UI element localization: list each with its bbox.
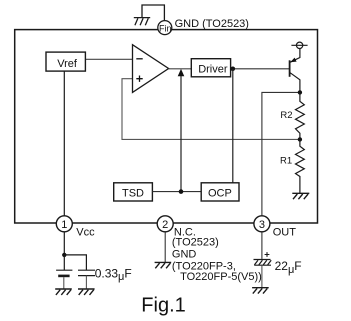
svg-text:Vref: Vref [57,58,78,70]
capacitor C2 (0.33uF) [78,270,95,289]
wire: pin 2 to ground [164,232,166,262]
svg-text:3: 3 [259,219,265,231]
Fin circle pin [158,21,172,35]
ground (below R1) [292,193,309,199]
IC outline box [15,30,318,223]
svg-text:R1: R1 [280,155,292,166]
wire: feedback to op-amp non-inverting input [122,79,300,140]
svg-text:Fig.1: Fig.1 [141,295,185,317]
svg-text:R2: R2 [280,110,292,121]
N.C. label block [172,226,262,283]
svg-text:OCP: OCP [208,187,232,199]
svg-text:(TO2523): (TO2523) [172,236,219,248]
svg-text:Vcc: Vcc [76,226,95,238]
wire: Vref down to pin 1 Vcc [63,71,65,255]
svg-text:Fin: Fin [159,23,172,33]
pin 3 circle [254,216,270,232]
wire: OCP riser [232,69,234,183]
resistor R2 [296,92,305,139]
junction node (pin1 / input caps tee) [62,253,66,257]
svg-text:1: 1 [61,219,67,231]
svg-text:0.33μF: 0.33μF [95,266,132,283]
wire: tee down to C1 [63,255,65,270]
junction node (collector / R2 / OUT) [298,90,302,94]
junction node (R2/R1/feedback) [298,137,302,141]
op-amp U1 (error amplifier) [133,45,169,93]
capacitor C1 (electrolytic input cap) [56,270,72,289]
svg-text:GND (TO2523): GND (TO2523) [175,18,249,30]
wire: pin 3 down to C3 [261,232,263,259]
transistor Q1 (PNP pass transistor) [290,49,300,93]
svg-text:GND: GND [172,249,197,261]
ground (C3) [252,288,269,294]
wire: TSD to OCP [152,191,201,193]
svg-text:OUT: OUT [273,226,297,238]
pin 2 circle [157,216,173,232]
Q1 emitter terminal (circle with bar) [291,42,307,48]
Vref box [46,52,85,71]
wire: op-amp output to Driver [169,68,192,70]
wire: TSD-OCP junction riser with arrow into signal path [178,69,185,192]
svg-text:2: 2 [162,219,168,231]
junction node (TSD/OCP/arrow riser) [179,189,184,194]
wire: Vref to op-amp inverting input [85,58,132,60]
Driver box [191,59,230,77]
TSD box [114,183,153,201]
ground (C1) [55,289,72,295]
wire: Fin tab bracket to ground [142,5,164,22]
svg-text:TO220FP-5(V5)): TO220FP-5(V5)) [180,271,262,283]
wire: tee to C2 [64,255,86,270]
svg-text:22μF: 22μF [275,259,302,276]
ground (pin 2) [155,262,172,268]
OCP box [201,183,239,201]
capacitor C3 (22uF electrolytic on OUT) [254,252,272,288]
wire: Driver to Q1 base [231,68,290,70]
wire: OUT rail from pin 3 up to collector node [262,92,300,215]
junction node (Driver output / OCP riser) [231,67,236,72]
ground (top, beside Fin tab) [134,18,150,26]
svg-text:TSD: TSD [122,187,144,199]
svg-text:Driver: Driver [198,64,228,76]
pin 1 circle [56,216,72,232]
ground (C2) [78,289,95,295]
resistor R1 [296,139,305,193]
